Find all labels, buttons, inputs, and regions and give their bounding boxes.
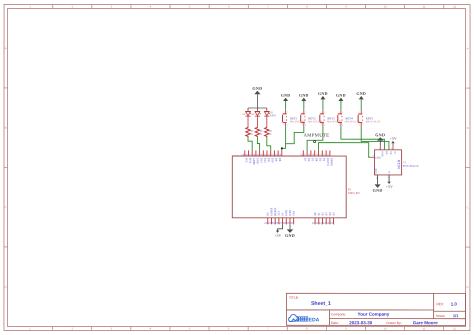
svg-text:Date:: Date:: [331, 321, 339, 325]
svg-text:RX: RX: [385, 151, 388, 155]
wire: [340, 101, 342, 111]
svg-text:GND: GND: [375, 132, 385, 137]
junction: [281, 147, 283, 149]
module U1 BT201: [374, 150, 419, 175]
svg-text:D: D: [467, 285, 469, 289]
svg-text:30: 30: [290, 221, 293, 225]
svg-text:D6: D6: [307, 158, 310, 162]
svg-text:5V: 5V: [393, 151, 396, 154]
pin RESET: [272, 207, 277, 225]
svg-text:GND: GND: [373, 188, 383, 193]
ground: [252, 86, 262, 94]
svg-text:3: 3: [111, 326, 113, 330]
svg-text:3: 3: [339, 125, 340, 127]
svg-text:4: 4: [150, 4, 152, 8]
svg-text:2: 2: [324, 112, 325, 114]
svg-text:GND: GND: [356, 91, 366, 96]
wire: [285, 101, 287, 111]
svg-text:Company:: Company:: [331, 312, 346, 316]
svg-text:2: 2: [342, 112, 343, 114]
pin GND: [253, 150, 259, 163]
svg-text:A0: A0: [314, 212, 317, 216]
svg-text:1k: 1k: [260, 134, 263, 136]
pin D4: [312, 150, 318, 161]
svg-text:R1: R1: [269, 131, 273, 133]
pin D12: [260, 150, 266, 163]
pin D1/TX: [323, 150, 329, 165]
pin D2: [319, 150, 325, 161]
svg-text:B: B: [467, 126, 469, 130]
ground: [299, 93, 309, 101]
wire key2: [286, 126, 304, 143]
pin D10: [268, 150, 274, 163]
key switch KEY5: [358, 111, 381, 127]
pin A5: [330, 212, 335, 225]
svg-text:1: 1: [302, 112, 303, 114]
svg-text:5: 5: [189, 326, 191, 330]
svg-text:D11: D11: [267, 158, 270, 163]
svg-text:A2: A2: [321, 212, 324, 216]
wire: [278, 224, 283, 230]
svg-text:11: 11: [423, 326, 426, 330]
wire key3 AMPMUTE: [307, 126, 323, 150]
svg-text:7: 7: [267, 326, 269, 330]
svg-text:6: 6: [228, 4, 230, 8]
svg-text:8: 8: [306, 4, 308, 8]
svg-text:LED1: LED1: [270, 114, 277, 117]
pin VIN: [290, 211, 295, 225]
svg-text:9: 9: [345, 326, 347, 330]
svg-text:4: 4: [305, 125, 306, 127]
pin GND: [286, 210, 291, 225]
svg-text:5V: 5V: [388, 170, 391, 173]
wire: [257, 137, 259, 150]
pin IOREF: [268, 207, 273, 225]
svg-text:2: 2: [362, 112, 363, 114]
svg-text:A: A: [5, 46, 7, 50]
svg-text:D1/TX: D1/TX: [326, 158, 329, 166]
wire: [303, 101, 305, 111]
svg-text:Sheet:: Sheet:: [436, 314, 446, 318]
pin GND left: [370, 155, 374, 157]
svg-text:1/1: 1/1: [453, 313, 459, 318]
svg-text:12: 12: [453, 326, 456, 330]
svg-text:A4: A4: [329, 212, 332, 216]
svg-text:6: 6: [376, 177, 377, 179]
svg-text:12: 12: [453, 4, 456, 8]
svg-text:4: 4: [287, 125, 288, 127]
svg-text:1: 1: [284, 112, 285, 114]
key switch KEY2: [301, 111, 324, 127]
svg-text:Drawn By:: Drawn By:: [386, 321, 401, 325]
power +5V: [274, 231, 281, 238]
svg-text:D2: D2: [322, 158, 325, 162]
svg-text:A: A: [467, 46, 469, 50]
svg-text:GND: GND: [289, 210, 292, 216]
svg-text:D5: D5: [311, 158, 314, 162]
svg-text:U1: U1: [404, 161, 408, 164]
key switch KEY3: [320, 111, 343, 127]
svg-text:C: C: [467, 205, 469, 209]
svg-text:4: 4: [324, 125, 325, 127]
pin 5V: [279, 212, 284, 225]
pin D11: [264, 150, 270, 163]
svg-text:3: 3: [284, 125, 285, 127]
svg-text:A1: A1: [318, 212, 321, 216]
svg-text:AMPMUTE: AMPMUTE: [304, 134, 330, 139]
svg-text:3: 3: [111, 4, 113, 8]
svg-text:GND: GND: [252, 86, 262, 91]
pin D7: [300, 150, 306, 161]
svg-text:1: 1: [339, 112, 340, 114]
pin GND: [379, 145, 381, 150]
svg-text:2: 2: [305, 112, 306, 114]
svg-text:C: C: [5, 205, 7, 209]
wire key4: [341, 126, 385, 149]
svg-text:D13: D13: [260, 158, 263, 163]
ground: [285, 229, 295, 237]
pin 5V: [391, 143, 393, 150]
svg-text:BT201 Bluetooth: BT201 Bluetooth: [403, 166, 420, 168]
ground: [281, 93, 291, 101]
svg-text:7: 7: [387, 177, 388, 179]
svg-text:KA-12*12_Th: KA-12*12_Th: [366, 120, 381, 123]
svg-text:D3: D3: [318, 158, 321, 162]
key switch KEY1: [283, 111, 306, 127]
svg-text:GND: GND: [336, 93, 346, 98]
power +5V: [390, 137, 397, 144]
pin D6: [304, 150, 310, 161]
svg-text:D12: D12: [263, 158, 266, 163]
power +5V: [386, 182, 393, 189]
pin NC: [264, 212, 269, 225]
pin A4: [326, 212, 331, 225]
ground: [375, 132, 385, 145]
wire: [248, 94, 267, 111]
pin SCL: [242, 150, 248, 163]
svg-text:D4: D4: [315, 158, 318, 162]
svg-text:B: B: [5, 126, 7, 130]
svg-text:1: 1: [29, 4, 31, 8]
svg-text:EDA: EDA: [309, 317, 320, 323]
pin 3V3: [275, 210, 280, 225]
svg-text:+5V: +5V: [274, 234, 281, 238]
svg-text:1: 1: [379, 148, 380, 150]
pin D8: [275, 150, 281, 161]
svg-text:A3: A3: [325, 212, 328, 216]
svg-text:3: 3: [359, 125, 360, 127]
wire key1: [282, 126, 286, 150]
svg-text:10: 10: [384, 326, 387, 330]
key switch KEY4: [338, 111, 361, 127]
svg-text:D8: D8: [278, 158, 281, 162]
ground: [336, 93, 346, 101]
pin A0: [312, 212, 317, 225]
svg-text:1k: 1k: [269, 134, 272, 136]
pin P11: [279, 150, 282, 156]
svg-text:4: 4: [150, 326, 152, 330]
svg-text:D0/RX: D0/RX: [330, 158, 333, 166]
svg-text:SCL: SCL: [245, 158, 248, 163]
pin A1: [315, 212, 320, 225]
ground: [373, 184, 383, 192]
ground: [356, 91, 366, 99]
svg-text:1: 1: [359, 112, 360, 114]
svg-text:4: 4: [362, 125, 363, 127]
svg-text:VIN: VIN: [293, 211, 296, 216]
svg-text:8: 8: [306, 326, 308, 330]
net label AMPMUTE: [304, 134, 330, 143]
wire: [360, 99, 362, 110]
svg-text:7: 7: [267, 4, 269, 8]
svg-text:GND: GND: [285, 210, 288, 216]
LED D2: [252, 111, 261, 117]
svg-text:Gare Moore: Gare Moore: [413, 320, 439, 325]
svg-text:TX: TX: [389, 151, 392, 154]
svg-text:+5V: +5V: [390, 137, 397, 141]
pin D13: [256, 150, 262, 163]
svg-text:5V: 5V: [281, 212, 284, 215]
svg-text:1: 1: [29, 326, 31, 330]
svg-text:SDA: SDA: [248, 158, 251, 164]
wire: [267, 137, 271, 150]
svg-text:1k: 1k: [251, 134, 254, 136]
wire: [247, 118, 249, 127]
pin D3: [315, 150, 321, 161]
svg-text:5: 5: [189, 4, 191, 8]
svg-text:R3: R3: [251, 131, 255, 133]
svg-text:GND: GND: [299, 93, 309, 98]
svg-text:D10: D10: [271, 158, 274, 163]
wire: [289, 224, 291, 229]
svg-text:TITLE:: TITLE:: [289, 296, 299, 300]
LED D3: [242, 111, 251, 117]
wire: [248, 137, 252, 150]
svg-text:3: 3: [321, 125, 322, 127]
svg-text:2: 2: [287, 112, 288, 114]
svg-text:D2: D2: [252, 114, 255, 116]
svg-text:9: 9: [345, 4, 347, 8]
ground: [318, 91, 328, 99]
svg-text:AREF: AREF: [252, 158, 255, 166]
svg-text:GND: GND: [285, 233, 295, 238]
svg-text:1: 1: [321, 112, 322, 114]
svg-text:A5: A5: [332, 212, 335, 216]
svg-text:R2: R2: [260, 131, 264, 133]
svg-text:REV:: REV:: [436, 302, 444, 306]
wire D3 to BT201: [319, 143, 371, 158]
svg-text:BT201: BT201: [397, 160, 401, 170]
resistor R3: [246, 127, 254, 138]
svg-text:GND: GND: [318, 91, 328, 96]
svg-text:11: 11: [423, 4, 426, 8]
svg-text:D: D: [5, 285, 7, 289]
svg-text:10: 10: [384, 4, 387, 8]
pin A2: [319, 212, 324, 225]
svg-text:2: 2: [71, 326, 73, 330]
svg-text:D7: D7: [303, 158, 306, 162]
svg-text:GND: GND: [256, 158, 259, 164]
LED D1: [264, 111, 277, 117]
svg-text:Your Company: Your Company: [358, 312, 390, 317]
svg-text:GND: GND: [375, 156, 380, 159]
svg-text:3V3: 3V3: [278, 210, 281, 215]
svg-text:2: 2: [72, 4, 74, 8]
pin D9: [271, 150, 277, 161]
svg-text:UNO_R3: UNO_R3: [348, 191, 360, 195]
wire: [266, 118, 268, 127]
svg-text:D9: D9: [274, 158, 277, 162]
svg-text:NC: NC: [267, 212, 270, 216]
pin AREF: [249, 150, 255, 165]
svg-text:GND: GND: [381, 151, 384, 156]
svg-text:15: 15: [330, 221, 333, 225]
svg-text:GND: GND: [281, 93, 291, 98]
svg-text:4: 4: [342, 125, 343, 127]
svg-text:5: 5: [373, 155, 374, 157]
svg-text:3: 3: [302, 125, 303, 127]
pin GND bottom: [376, 175, 378, 184]
svg-text:IOREF: IOREF: [270, 207, 273, 216]
resistor R1: [265, 127, 273, 138]
IC P1 UNO_R3: [232, 156, 360, 218]
svg-text:1.0: 1.0: [451, 301, 458, 306]
pin 5V bottom: [387, 175, 389, 182]
svg-text:+5V: +5V: [386, 185, 393, 189]
svg-text:Sheet_1: Sheet_1: [311, 301, 331, 307]
pin GND: [283, 210, 288, 225]
svg-text:RESET: RESET: [274, 207, 277, 216]
wire: [256, 118, 258, 127]
pin SDA: [245, 150, 251, 163]
wire key5: [361, 126, 389, 149]
pin D5: [308, 150, 314, 161]
svg-text:2023-03-30: 2023-03-30: [349, 320, 373, 325]
pin D0/RX: [327, 150, 333, 165]
wire: [322, 99, 324, 110]
svg-text:4: 4: [391, 148, 392, 150]
resistor R2: [255, 127, 263, 138]
pin A3: [323, 212, 328, 225]
svg-text:6: 6: [228, 326, 230, 330]
svg-text:GND: GND: [375, 168, 378, 173]
